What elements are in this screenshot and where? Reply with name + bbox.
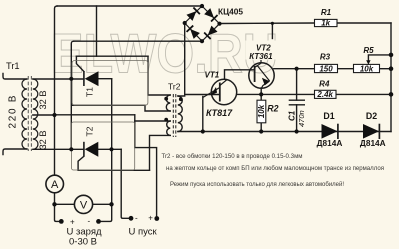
wire Tr2 top-left winding bottom (72, 105, 170, 111)
svg-text:VT1: VT1 (205, 71, 220, 80)
svg-text:R3: R3 (320, 53, 331, 62)
svg-text:R5: R5 (363, 46, 374, 55)
thyristor T1 (84, 71, 99, 86)
wire vertical from top rail to gate row (96, 6, 98, 56)
svg-text:на желтом кольце от комп БП ил: на желтом кольце от комп БП или любом ма… (166, 164, 385, 172)
wire T1 row (33, 78, 84, 80)
wire T2 output down to U pusk minus (121, 149, 131, 218)
terminal dots (59, 216, 159, 224)
wire anode vertical x71 (71, 41, 73, 149)
Tr2 left top winding (166, 95, 170, 111)
Tr1 primary coil (22, 79, 27, 149)
wire C1 lead (296, 69, 298, 100)
wire R2 leads (260, 88, 262, 100)
wire T1 output vertical x111.7 (99, 79, 112, 222)
wire VT1 emitter down (202, 97, 204, 132)
Tr2 polarity dots (164, 97, 168, 101)
wire A/V down to U zaryad plus (55, 204, 62, 221)
wire T2 gate diagonal (78, 156, 149, 170)
Tr1 secondary coil (33, 79, 38, 149)
svg-text:150: 150 (319, 64, 333, 73)
svg-text:Tr2 - все обмотки 120-150 в в: Tr2 - все обмотки 120-150 в в проводе 0.… (162, 152, 303, 160)
svg-text:32 В: 32 В (38, 130, 48, 149)
thyristor T2 (84, 142, 98, 157)
svg-text:-: - (135, 214, 138, 223)
svg-text:Tr1: Tr1 (6, 61, 20, 71)
bridge diode UR (204, 8, 218, 22)
svg-text:Режим пуска использовать тольк: Режим пуска использовать только для легк… (170, 180, 344, 188)
wire top rail (57, 5, 202, 7)
wire R1 junction down to VT2 collector row (broken by label) (271, 23, 273, 38)
transistor VT1 (203, 79, 237, 105)
svg-text:+: + (70, 217, 75, 226)
svg-text:+: + (148, 213, 153, 222)
VT2 emitter arrow (262, 78, 270, 86)
thyristor T1 box (72, 61, 148, 106)
wire Tr1 primary bottom lead (3, 149, 27, 155)
Tr2 right winding (178, 96, 182, 132)
wire right rail (390, 23, 392, 132)
VT1 emitter arrow (210, 87, 218, 95)
svg-text:0-30 В: 0-30 В (69, 237, 97, 248)
svg-text:R1: R1 (321, 8, 332, 17)
svg-text:R4: R4 (319, 80, 330, 89)
svg-text:КТ817: КТ817 (206, 108, 233, 118)
svg-text:ELWO.RU: ELWO.RU (51, 22, 278, 85)
wire center tap to U pusk plus (135, 115, 157, 219)
wire Tr1 primary top lead (3, 74, 27, 80)
svg-text:Tr2: Tr2 (168, 82, 181, 92)
bridge diode UL (186, 8, 200, 22)
wire gate row down to Tr2 top winding (148, 56, 170, 95)
svg-text:1k: 1k (321, 19, 330, 28)
svg-text:A: A (51, 179, 59, 191)
wire anode rail y41 (74, 40, 203, 42)
svg-text:Д814А: Д814А (360, 138, 386, 148)
bridge diode LR (204, 25, 218, 39)
wire T1 gate diagonal (76, 56, 84, 71)
svg-text:32 В: 32 В (38, 90, 48, 109)
voltmeter V (74, 195, 92, 213)
Tr2 left bottom winding (167, 121, 171, 135)
wire VT1 collector to VT2 base (225, 70, 255, 79)
transistor VT2 (246, 41, 279, 60)
svg-text:U пуск: U пуск (129, 227, 158, 238)
svg-text:-: - (88, 217, 91, 226)
svg-text:КЦ405: КЦ405 (218, 6, 243, 16)
wire main bottom rail (178, 131, 391, 133)
svg-text:R2: R2 (267, 103, 278, 113)
wire Tr2 right winding top to bridge (178, 23, 185, 96)
svg-text:Т2: Т2 (85, 126, 95, 136)
wire T1 gate row (76, 55, 148, 57)
wire R5 wiper (368, 55, 391, 62)
diode D2 (363, 124, 379, 139)
wire R4 row (237, 93, 315, 95)
diode D1 (322, 124, 338, 139)
wire T2 row (33, 148, 84, 150)
wire R3 row (274, 68, 315, 70)
wire Tr2 bottom-left winding top (135, 120, 171, 122)
wire VT1 base row (185, 94, 220, 96)
svg-text:C1: C1 (288, 110, 297, 121)
svg-text:10k: 10k (257, 104, 266, 118)
bridge rectifier KC405 diamond (185, 6, 220, 41)
svg-text:10k: 10k (360, 64, 374, 73)
svg-text:220 В: 220 В (7, 94, 18, 129)
svg-text:D2: D2 (366, 111, 377, 121)
resistor R4 (315, 90, 337, 98)
svg-text:2.4k: 2.4k (316, 90, 333, 99)
resistor R2 vertical (257, 100, 266, 123)
capacitor C1 (289, 100, 305, 105)
wire bridge right to R1 (220, 22, 315, 25)
wire A meter bottom to V row (54, 193, 56, 205)
wire center tap row (33, 114, 55, 116)
potentiometer R5 (354, 64, 380, 72)
svg-text:КТ361: КТ361 (249, 52, 273, 61)
resistor R3 (315, 64, 338, 72)
bridge diode LL (187, 26, 201, 40)
Tr1 core (28, 76, 31, 151)
thyristor T2 box (72, 122, 135, 170)
Tr2 core (173, 94, 176, 137)
svg-text:D1: D1 (323, 111, 334, 121)
wire Tr2 bottom-left winding bottom to gate row (150, 135, 171, 170)
wire left vertical bus from top rail down to A meter (55, 6, 58, 175)
ammeter A (46, 175, 64, 193)
svg-text:V: V (80, 200, 88, 212)
svg-text:Т1: Т1 (85, 87, 95, 97)
wire V row (55, 203, 75, 205)
resistor R1 (315, 19, 338, 26)
svg-text:Д814А: Д814А (317, 138, 343, 148)
svg-text:470n: 470n (297, 110, 306, 127)
